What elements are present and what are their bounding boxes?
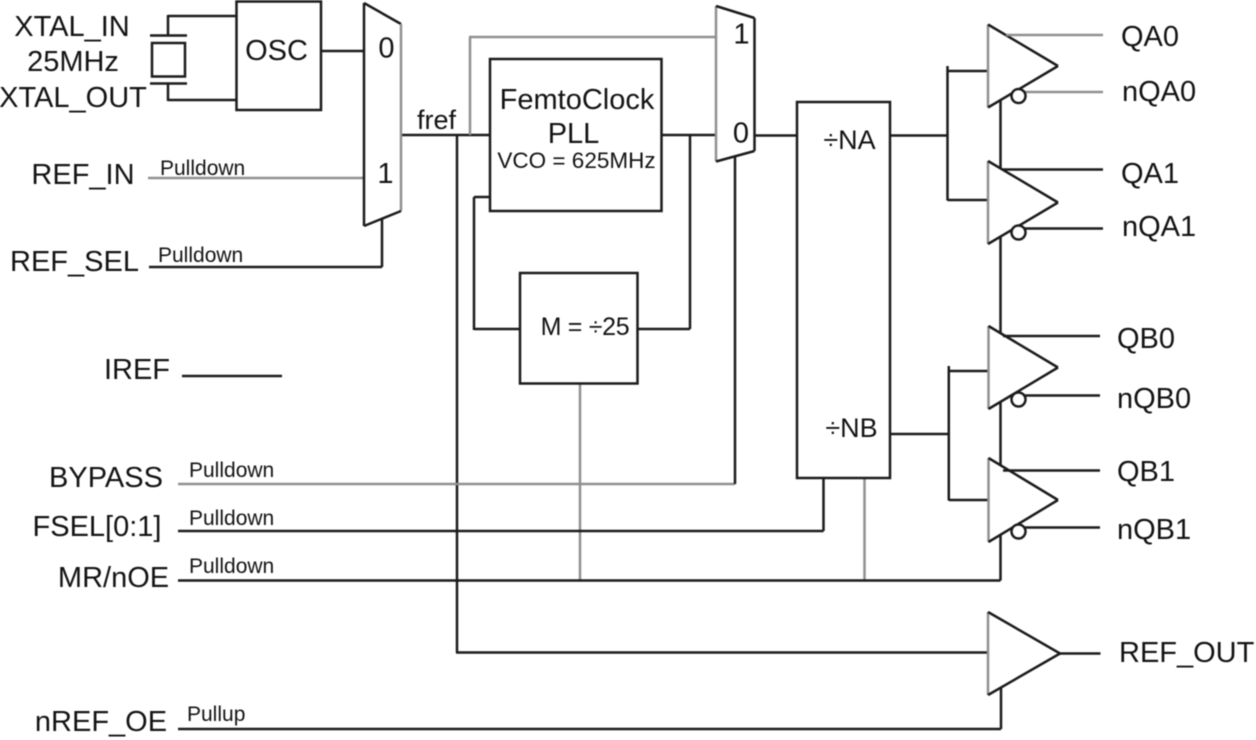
svg-text:nREF_OE: nREF_OE xyxy=(35,706,167,738)
svg-text:Pulldown: Pulldown xyxy=(189,459,274,482)
svg-text:nQA1: nQA1 xyxy=(1122,211,1196,243)
svg-text:1: 1 xyxy=(377,158,393,190)
svg-text:nQA0: nQA0 xyxy=(1122,76,1196,108)
svg-text:XTAL_OUT: XTAL_OUT xyxy=(0,82,147,114)
svg-text:Pulldown: Pulldown xyxy=(160,157,245,180)
svg-text:REF_IN: REF_IN xyxy=(31,159,134,191)
svg-text:nQB0: nQB0 xyxy=(1117,383,1191,415)
svg-text:QA1: QA1 xyxy=(1121,158,1179,190)
svg-text:Pulldown: Pulldown xyxy=(189,555,274,578)
svg-text:0: 0 xyxy=(378,33,394,65)
svg-text:0: 0 xyxy=(733,118,749,150)
svg-text:REF_SEL: REF_SEL xyxy=(10,246,139,278)
svg-text:÷NA: ÷NA xyxy=(823,125,875,155)
svg-text:nQB1: nQB1 xyxy=(1117,514,1191,546)
svg-text:PLL: PLL xyxy=(548,118,600,150)
svg-text:fref: fref xyxy=(417,105,457,135)
svg-text:QB0: QB0 xyxy=(1117,323,1175,355)
svg-text:BYPASS: BYPASS xyxy=(49,462,163,494)
svg-text:QB1: QB1 xyxy=(1117,456,1175,488)
svg-text:1: 1 xyxy=(733,19,749,51)
svg-text:FSEL[0:1]: FSEL[0:1] xyxy=(33,511,162,543)
svg-text:÷NB: ÷NB xyxy=(825,413,877,443)
svg-text:VCO = 625MHz: VCO = 625MHz xyxy=(497,148,655,173)
svg-text:IREF: IREF xyxy=(104,354,170,386)
svg-text:Pulldown: Pulldown xyxy=(189,507,274,530)
svg-text:25MHz: 25MHz xyxy=(27,46,119,78)
svg-text:Pullup: Pullup xyxy=(187,703,245,726)
svg-text:QA0: QA0 xyxy=(1121,21,1179,53)
svg-text:Pulldown: Pulldown xyxy=(158,244,243,267)
svg-text:OSC: OSC xyxy=(245,35,308,67)
svg-text:M = ÷25: M = ÷25 xyxy=(541,313,630,341)
svg-text:MR/nOE: MR/nOE xyxy=(58,562,169,594)
svg-text:REF_OUT: REF_OUT xyxy=(1119,637,1255,669)
svg-text:FemtoClock: FemtoClock xyxy=(500,84,655,116)
svg-text:XTAL_IN: XTAL_IN xyxy=(14,11,130,43)
